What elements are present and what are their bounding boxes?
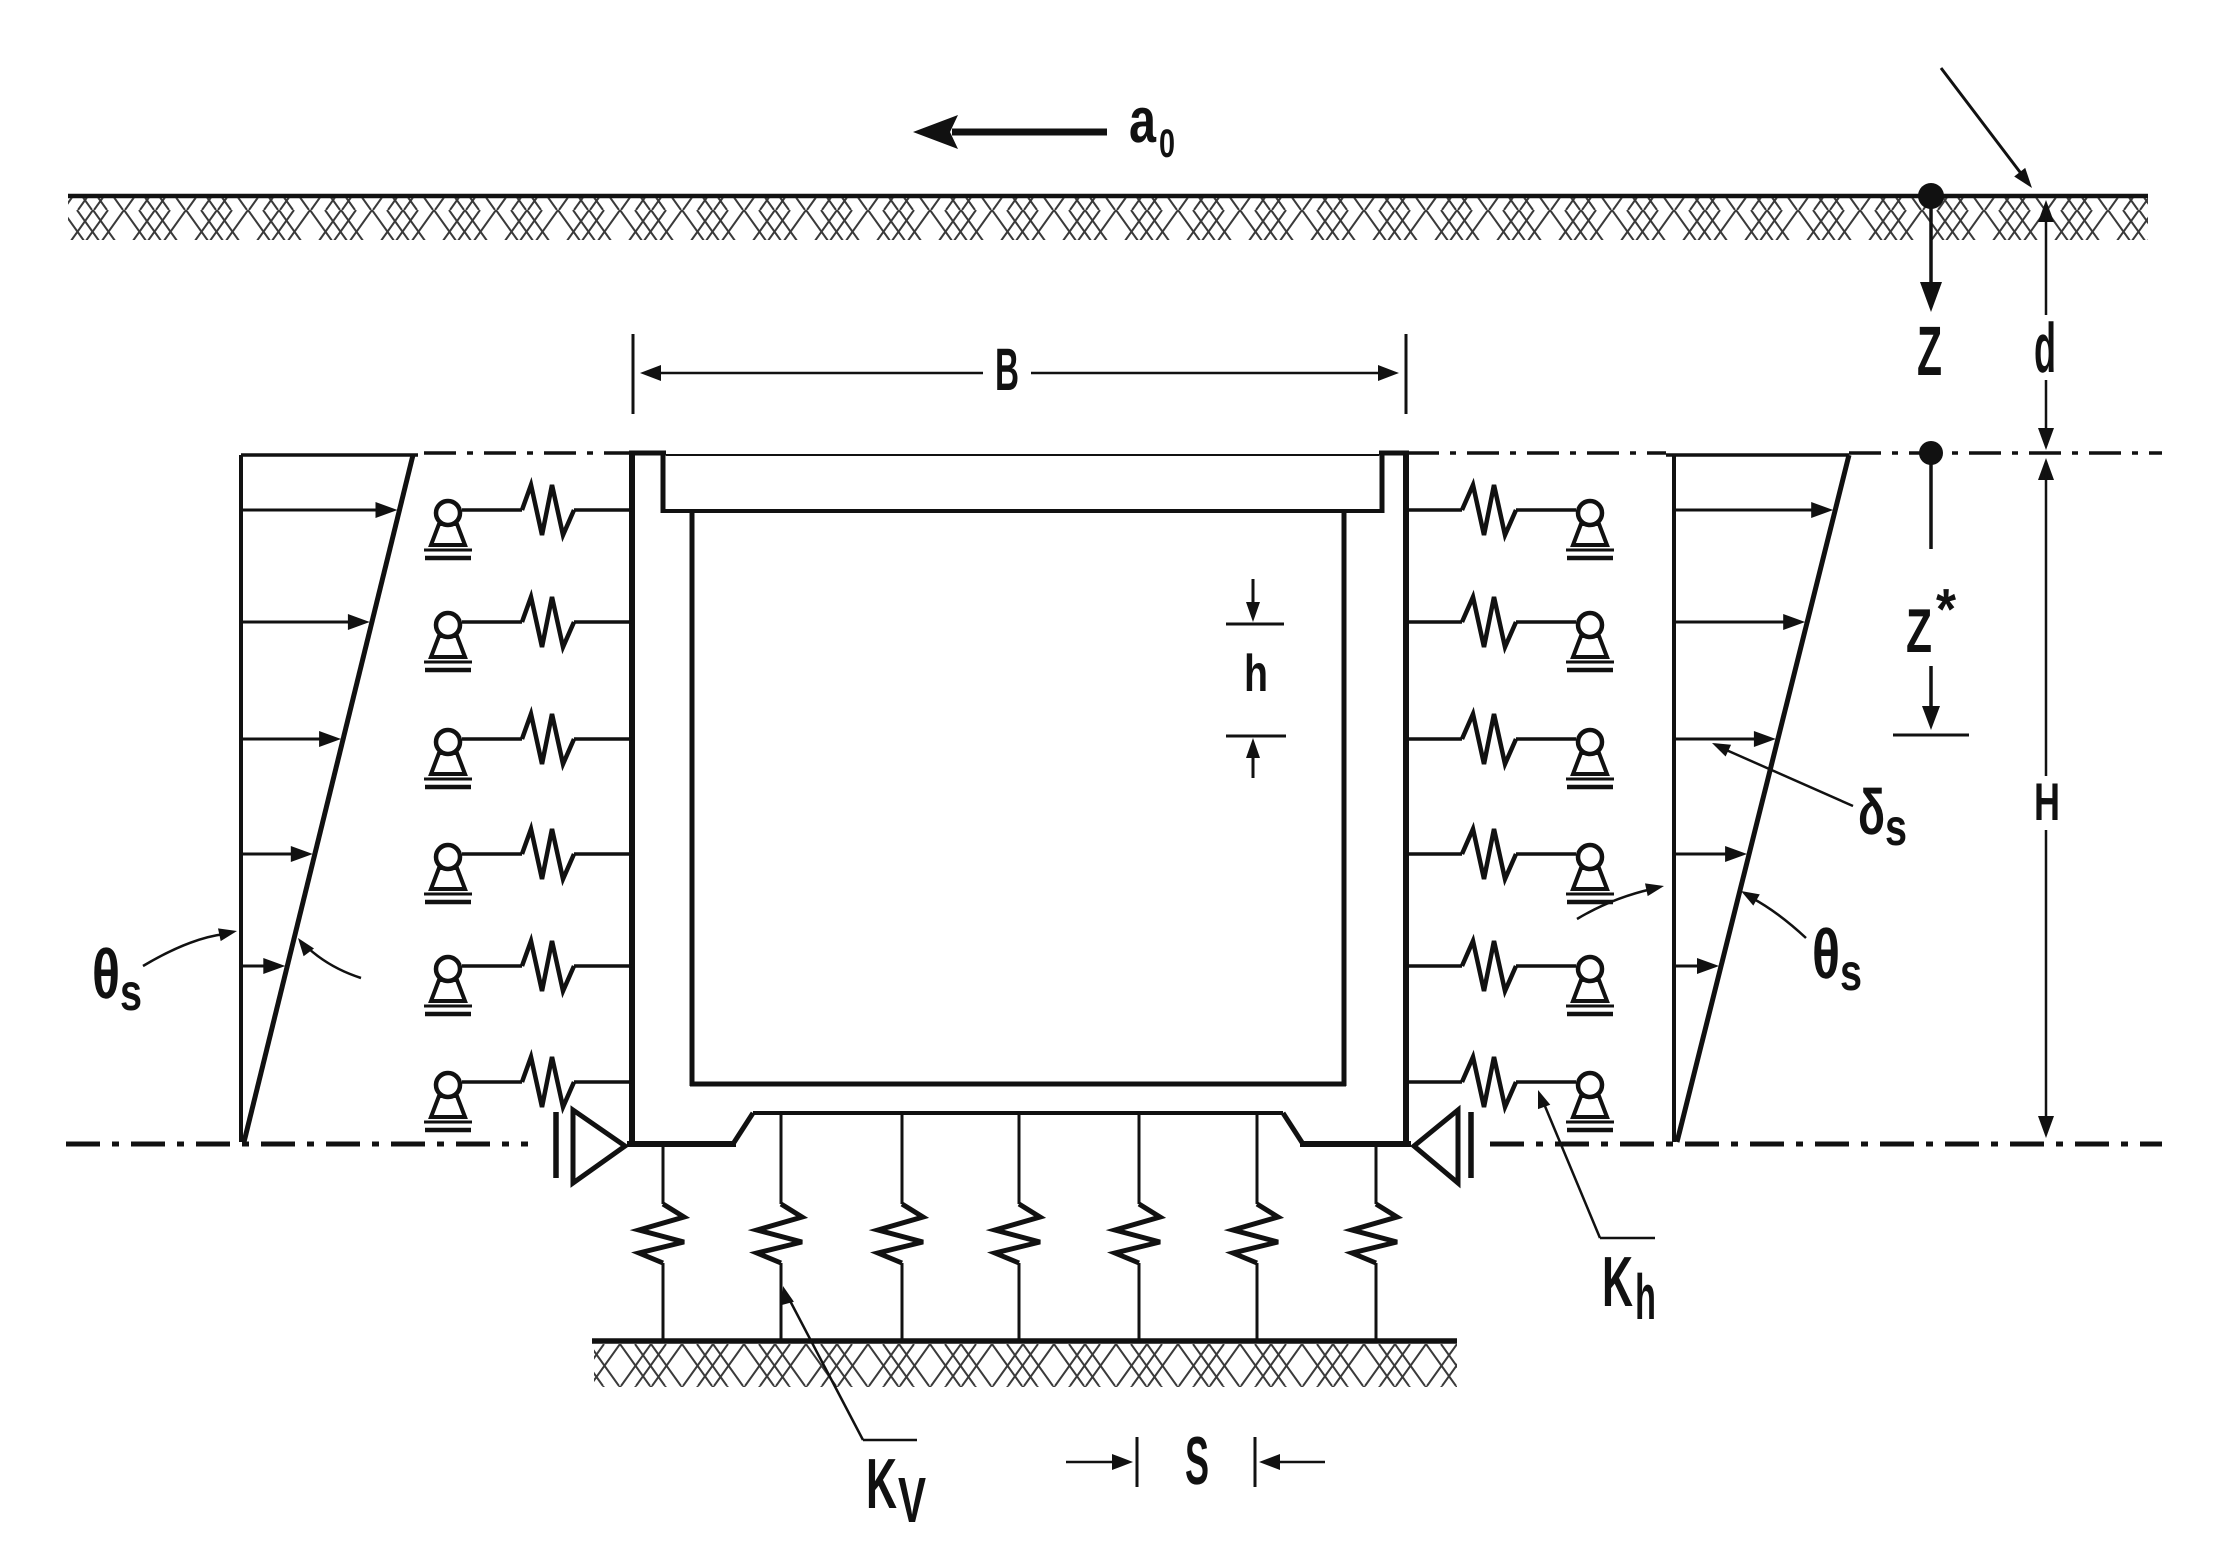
box right wall top stub [1379, 451, 1409, 513]
S dimension right tick [1254, 1437, 1257, 1487]
theta-s right leader to slanted line [1741, 891, 1806, 938]
right profile displacement arrow row 5 [1676, 958, 1719, 974]
left profile top line [241, 453, 418, 457]
svg-text:h: h [1635, 1261, 1656, 1333]
right profile displacement arrow row 4 [1676, 846, 1747, 862]
vertical base spring Kv 7 [1352, 1144, 1397, 1341]
theta-s left leader to vertical line [143, 928, 237, 966]
svg-text:V: V [898, 1464, 926, 1536]
svg-text:h: h [1244, 645, 1268, 703]
h dimension lower tick [1226, 735, 1286, 738]
left profile displacement arrow row 2 [243, 614, 370, 630]
left profile vertical line [239, 455, 243, 1142]
svg-text:s: s [1885, 799, 1907, 857]
right profile displacement arrow row 1 [1676, 502, 1833, 518]
right soil anchor symbol row 4 [1566, 845, 1614, 902]
lower dash-dot axis left segment [66, 1142, 528, 1147]
vertical base spring Kv 5 [1115, 1113, 1160, 1341]
label Kv [866, 1445, 926, 1536]
right soil anchor symbol row 3 [1566, 730, 1614, 787]
svg-text:θ: θ [92, 935, 120, 1013]
vertical base spring Kv 2 [757, 1113, 802, 1341]
label delta-s [1858, 776, 1907, 857]
S dimension right arrow [1259, 1454, 1325, 1470]
box right wall outer face [1403, 451, 1409, 1144]
h dimension lower arrow [1246, 738, 1260, 778]
right lateral spring Kh row 3 [1406, 714, 1576, 764]
dimension Z* line upper [1929, 461, 1933, 549]
right profile displacement arrow row 3 [1676, 731, 1776, 747]
box left wall inner face [690, 509, 695, 1086]
svg-text:s: s [1840, 944, 1862, 1002]
bottom rigid base line [592, 1338, 1457, 1344]
S dimension left arrow [1066, 1454, 1133, 1470]
theta-s left leader to slanted line [298, 938, 361, 978]
left lateral spring Kh row 1 [462, 485, 632, 535]
right soil anchor symbol row 2 [1566, 613, 1614, 670]
dimension Z* line lower with arrow [1922, 666, 1940, 730]
ground surface line [68, 194, 2148, 199]
box base left chamfer [733, 1113, 753, 1144]
right profile displacement arrow row 2 [1676, 614, 1805, 630]
vertical base spring Kv 4 [995, 1113, 1040, 1341]
svg-text:B: B [995, 336, 1019, 403]
node dot on ground surface [1918, 183, 1944, 209]
right profile slanted displacement line [1677, 455, 1849, 1142]
label theta-s right [1812, 915, 1862, 1002]
box base right chamfer [1283, 1113, 1303, 1144]
B dimension right tick [1405, 334, 1408, 414]
S dimension left tick [1136, 1437, 1139, 1487]
left lateral support triangle [556, 1110, 625, 1183]
svg-text:Z: Z [1917, 312, 1942, 390]
right lateral spring Kh row 5 [1406, 941, 1576, 991]
soil hatching below base line [594, 1344, 1457, 1387]
box base slab bottom right segment [1300, 1141, 1411, 1147]
svg-text:Z: Z [1906, 597, 1932, 666]
left lateral spring Kh row 6 [462, 1057, 632, 1107]
svg-text:s: s [120, 964, 142, 1022]
right profile vertical line [1672, 455, 1676, 1142]
box left wall outer face [629, 451, 635, 1144]
label Z* [1906, 577, 1956, 666]
left soil anchor symbol row 2 [424, 613, 472, 670]
Z* end tick [1893, 734, 1969, 737]
left profile displacement arrow row 4 [243, 846, 313, 862]
Kv leader [781, 1286, 917, 1440]
right soil anchor symbol row 1 [1566, 501, 1614, 558]
dimension H lower segment [2038, 830, 2054, 1138]
label h [1244, 645, 1268, 703]
left lateral spring Kh row 2 [462, 597, 632, 647]
theta-s right leader to vertical line [1577, 883, 1664, 919]
left profile displacement arrow row 5 [243, 958, 285, 974]
box base invert line [753, 1111, 1283, 1115]
svg-text:d: d [2034, 309, 2056, 387]
dimension d upper segment [2038, 200, 2054, 315]
right profile top line [1666, 453, 1849, 457]
label theta-s left [92, 935, 142, 1022]
dimension H upper segment [2038, 458, 2054, 776]
Kh leader [1538, 1090, 1655, 1238]
box roof slab soffit line [663, 509, 1382, 513]
right lateral spring Kh row 4 [1406, 829, 1576, 879]
label Kh [1602, 1243, 1656, 1333]
soil hatching below ground surface [68, 198, 2148, 240]
right lateral spring Kh row 2 [1406, 597, 1576, 647]
left lateral spring Kh row 4 [462, 829, 632, 879]
h dimension upper arrow [1246, 579, 1260, 622]
box right wall inner face [1342, 509, 1347, 1086]
lower dash-dot axis right segment [1490, 1142, 2162, 1147]
left soil anchor symbol row 6 [424, 1073, 472, 1130]
B dimension line right part [1031, 365, 1399, 381]
svg-text:0: 0 [1159, 122, 1175, 166]
B dimension line left part [640, 365, 983, 381]
right lateral support triangle [1414, 1110, 1471, 1183]
label S [1185, 1423, 1209, 1499]
svg-text:a: a [1129, 84, 1156, 156]
right lateral spring Kh row 6 [1406, 1057, 1576, 1107]
upper dash-dot axis left segment [424, 451, 631, 455]
vertical base spring Kv 3 [878, 1113, 923, 1341]
right soil anchor symbol row 5 [1566, 957, 1614, 1014]
vertical base spring Kv 6 [1233, 1113, 1278, 1341]
left soil anchor symbol row 3 [424, 730, 472, 787]
box base slab bottom left segment [627, 1141, 736, 1147]
left profile displacement arrow row 1 [243, 502, 398, 518]
svg-text:*: * [1936, 577, 1956, 642]
svg-text:H: H [2034, 773, 2060, 832]
h dimension upper tick [1226, 623, 1284, 626]
left lateral spring Kh row 5 [462, 941, 632, 991]
label d [2034, 309, 2056, 387]
dimension d lower segment [2038, 380, 2054, 450]
svg-text:S: S [1185, 1423, 1209, 1499]
svg-text:θ: θ [1812, 915, 1840, 993]
depth arrow Z [1920, 205, 1942, 312]
right soil anchor symbol row 6 [1566, 1073, 1614, 1130]
box interior floor line [690, 1082, 1346, 1087]
upper dash-dot axis middle segment [1407, 451, 1666, 455]
left lateral spring Kh row 3 [462, 714, 632, 764]
node dot on roof axis [1919, 441, 1943, 465]
label Z [1917, 312, 1942, 390]
box roof slab top line [666, 454, 1379, 456]
vertical base spring Kv 1 [639, 1144, 684, 1341]
label B [995, 336, 1019, 403]
delta-s leader to displacement arrow [1712, 743, 1853, 806]
svg-text:δ: δ [1858, 776, 1885, 848]
leader line to ground surface point [1941, 68, 2032, 188]
svg-text:K: K [866, 1445, 897, 1524]
left soil anchor symbol row 1 [424, 501, 472, 558]
box left wall top stub [629, 451, 666, 513]
right lateral spring Kh row 1 [1406, 485, 1576, 535]
label a0 [1129, 84, 1175, 166]
B dimension left tick [632, 334, 635, 414]
label H [2034, 773, 2060, 832]
left profile slanted displacement line [244, 455, 413, 1142]
upper dash-dot axis right segment [1849, 451, 2162, 455]
left profile displacement arrow row 3 [243, 731, 341, 747]
svg-text:K: K [1602, 1243, 1633, 1322]
left soil anchor symbol row 5 [424, 957, 472, 1014]
seismic acceleration arrow a0 [913, 115, 1107, 149]
left soil anchor symbol row 4 [424, 845, 472, 902]
